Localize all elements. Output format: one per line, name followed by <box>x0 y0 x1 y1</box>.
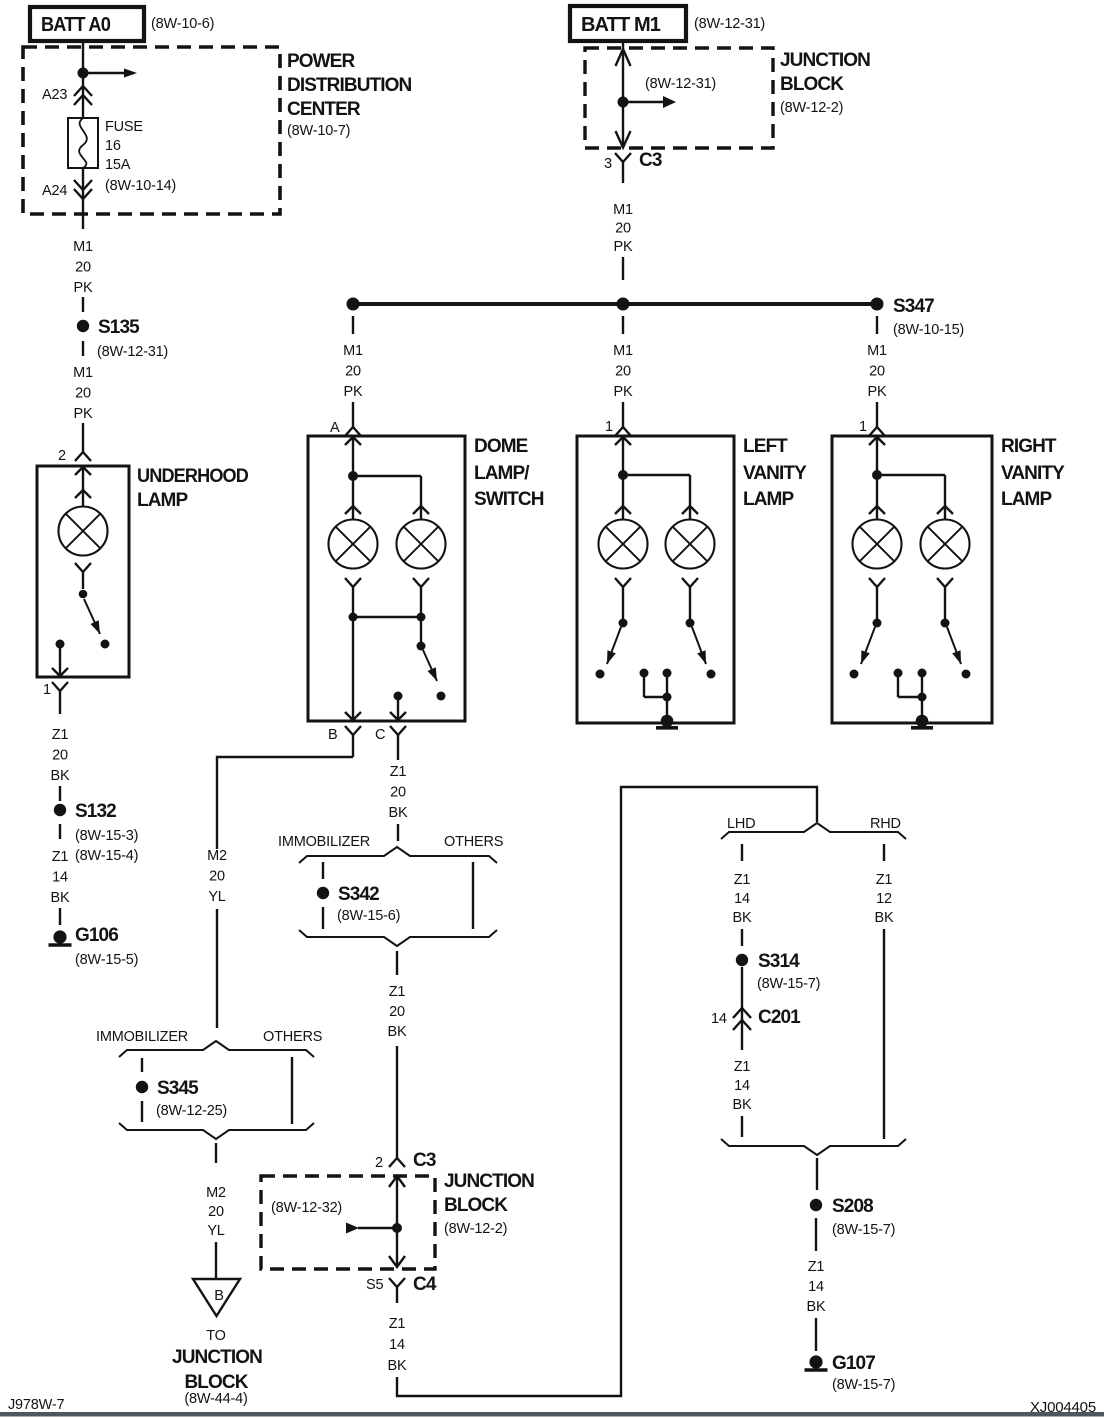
svg-text:VANITY: VANITY <box>743 463 807 484</box>
svg-text:PK: PK <box>614 384 633 400</box>
svg-text:C3: C3 <box>413 1150 436 1171</box>
svg-text:YL: YL <box>208 889 225 905</box>
svg-text:(8W-15-6): (8W-15-6) <box>337 908 400 924</box>
svg-text:S208: S208 <box>832 1196 873 1217</box>
svg-text:B: B <box>214 1288 223 1304</box>
svg-text:A: A <box>330 420 340 436</box>
svg-text:(8W-15-4): (8W-15-4) <box>75 848 138 864</box>
svg-text:(8W-10-14): (8W-10-14) <box>105 178 176 194</box>
svg-text:BK: BK <box>875 910 894 926</box>
svg-text:1: 1 <box>859 419 867 435</box>
svg-text:M1: M1 <box>73 239 93 255</box>
svg-text:YL: YL <box>207 1223 224 1239</box>
svg-text:14: 14 <box>52 870 68 886</box>
svg-text:JUNCTION: JUNCTION <box>172 1347 262 1368</box>
svg-text:14: 14 <box>734 891 750 907</box>
svg-text:OTHERS: OTHERS <box>444 834 503 850</box>
svg-text:(8W-44-4): (8W-44-4) <box>184 1391 247 1407</box>
svg-text:(8W-12-2): (8W-12-2) <box>780 100 843 116</box>
svg-text:2: 2 <box>375 1155 383 1171</box>
svg-text:(8W-12-31): (8W-12-31) <box>645 76 716 92</box>
svg-text:BK: BK <box>389 805 408 821</box>
svg-text:Z1: Z1 <box>52 849 69 865</box>
svg-text:PK: PK <box>74 406 93 422</box>
svg-text:C: C <box>375 727 385 743</box>
svg-text:LAMP: LAMP <box>137 490 188 511</box>
svg-text:BLOCK: BLOCK <box>444 1195 508 1216</box>
svg-text:14: 14 <box>389 1337 405 1353</box>
svg-text:20: 20 <box>390 785 406 801</box>
svg-text:LEFT: LEFT <box>743 436 788 457</box>
svg-text:M2: M2 <box>207 848 227 864</box>
svg-text:15A: 15A <box>105 157 131 173</box>
svg-text:12: 12 <box>876 891 892 907</box>
svg-text:DISTRIBUTION: DISTRIBUTION <box>287 75 411 96</box>
svg-text:BLOCK: BLOCK <box>184 1372 248 1393</box>
svg-text:Z1: Z1 <box>808 1259 825 1275</box>
svg-text:PK: PK <box>614 239 633 255</box>
svg-text:Z1: Z1 <box>734 872 751 888</box>
svg-text:PK: PK <box>344 384 363 400</box>
svg-text:G107: G107 <box>832 1353 875 1374</box>
svg-text:CENTER: CENTER <box>287 99 361 120</box>
svg-text:(8W-12-25): (8W-12-25) <box>156 1103 227 1119</box>
svg-text:20: 20 <box>75 386 91 402</box>
svg-text:S5: S5 <box>366 1277 383 1293</box>
svg-text:20: 20 <box>389 1004 405 1020</box>
svg-text:2: 2 <box>58 448 66 464</box>
svg-text:A24: A24 <box>42 183 67 199</box>
svg-text:C201: C201 <box>758 1007 801 1028</box>
svg-text:JUNCTION: JUNCTION <box>444 1171 534 1192</box>
svg-text:(8W-12-31): (8W-12-31) <box>97 344 168 360</box>
svg-text:BK: BK <box>51 768 70 784</box>
svg-text:(8W-15-7): (8W-15-7) <box>832 1222 895 1238</box>
svg-text:Z1: Z1 <box>389 1316 406 1332</box>
svg-text:OTHERS: OTHERS <box>263 1029 322 1045</box>
svg-text:(8W-12-31): (8W-12-31) <box>694 16 765 32</box>
svg-text:20: 20 <box>869 364 885 380</box>
svg-text:BATT M1: BATT M1 <box>581 14 661 36</box>
svg-text:M1: M1 <box>343 343 363 359</box>
svg-text:Z1: Z1 <box>390 764 407 780</box>
svg-text:Z1: Z1 <box>389 984 406 1000</box>
svg-text:20: 20 <box>52 748 68 764</box>
svg-text:LHD: LHD <box>727 816 755 832</box>
svg-text:UNDERHOOD: UNDERHOOD <box>137 466 248 487</box>
svg-text:POWER: POWER <box>287 51 355 72</box>
svg-text:BK: BK <box>733 910 752 926</box>
svg-text:PK: PK <box>74 280 93 296</box>
svg-text:JUNCTION: JUNCTION <box>780 50 870 71</box>
svg-text:RIGHT: RIGHT <box>1001 436 1057 457</box>
svg-text:16: 16 <box>105 138 121 154</box>
svg-text:M1: M1 <box>613 202 633 218</box>
svg-text:20: 20 <box>208 1204 224 1220</box>
svg-text:S345: S345 <box>157 1078 199 1099</box>
svg-text:BK: BK <box>388 1358 407 1374</box>
svg-text:M1: M1 <box>73 365 93 381</box>
svg-text:B: B <box>328 727 337 743</box>
svg-text:BK: BK <box>51 890 70 906</box>
svg-text:S135: S135 <box>98 317 140 338</box>
svg-text:(8W-15-5): (8W-15-5) <box>75 952 138 968</box>
svg-text:J978W-7: J978W-7 <box>8 1397 64 1413</box>
svg-text:(8W-15-3): (8W-15-3) <box>75 828 138 844</box>
svg-text:20: 20 <box>75 260 91 276</box>
svg-text:PK: PK <box>868 384 887 400</box>
svg-text:Z1: Z1 <box>52 727 69 743</box>
svg-text:Z1: Z1 <box>734 1059 751 1075</box>
svg-text:LAMP/: LAMP/ <box>474 463 530 484</box>
svg-text:S347: S347 <box>893 296 934 317</box>
svg-text:(8W-12-2): (8W-12-2) <box>444 1221 507 1237</box>
svg-text:TO: TO <box>206 1328 225 1344</box>
svg-text:LAMP: LAMP <box>1001 489 1052 510</box>
svg-text:(8W-10-7): (8W-10-7) <box>287 123 350 139</box>
svg-text:Z1: Z1 <box>876 872 893 888</box>
svg-text:20: 20 <box>209 869 225 885</box>
svg-text:FUSE: FUSE <box>105 119 143 135</box>
svg-text:(8W-12-32): (8W-12-32) <box>271 1200 342 1216</box>
svg-text:1: 1 <box>605 419 613 435</box>
svg-text:RHD: RHD <box>870 816 901 832</box>
svg-text:3: 3 <box>604 156 612 172</box>
svg-text:M2: M2 <box>206 1185 226 1201</box>
svg-text:BLOCK: BLOCK <box>780 74 844 95</box>
svg-text:(8W-15-7): (8W-15-7) <box>757 976 820 992</box>
svg-text:14: 14 <box>734 1078 750 1094</box>
svg-text:(8W-15-7): (8W-15-7) <box>832 1377 895 1393</box>
svg-text:VANITY: VANITY <box>1001 463 1065 484</box>
svg-text:IMMOBILIZER: IMMOBILIZER <box>96 1029 188 1045</box>
svg-text:M1: M1 <box>867 343 887 359</box>
svg-text:SWITCH: SWITCH <box>474 489 544 510</box>
svg-text:M1: M1 <box>613 343 633 359</box>
svg-text:S132: S132 <box>75 801 116 822</box>
svg-text:C4: C4 <box>413 1274 437 1295</box>
svg-text:20: 20 <box>345 364 361 380</box>
svg-text:G106: G106 <box>75 925 118 946</box>
svg-text:1: 1 <box>43 682 51 698</box>
svg-text:LAMP: LAMP <box>743 489 794 510</box>
svg-text:BK: BK <box>733 1097 752 1113</box>
svg-text:20: 20 <box>615 364 631 380</box>
svg-text:S314: S314 <box>758 951 800 972</box>
svg-text:BK: BK <box>807 1299 826 1315</box>
svg-text:A23: A23 <box>42 87 67 103</box>
svg-text:20: 20 <box>615 221 631 237</box>
svg-text:BK: BK <box>388 1024 407 1040</box>
svg-text:14: 14 <box>808 1279 824 1295</box>
svg-text:C3: C3 <box>639 150 662 171</box>
svg-text:(8W-10-15): (8W-10-15) <box>893 322 964 338</box>
svg-text:(8W-10-6): (8W-10-6) <box>151 16 214 32</box>
svg-text:BATT A0: BATT A0 <box>41 14 111 36</box>
svg-text:14: 14 <box>711 1011 727 1027</box>
svg-text:S342: S342 <box>338 884 379 905</box>
svg-text:DOME: DOME <box>474 436 528 457</box>
svg-text:IMMOBILIZER: IMMOBILIZER <box>278 834 370 850</box>
